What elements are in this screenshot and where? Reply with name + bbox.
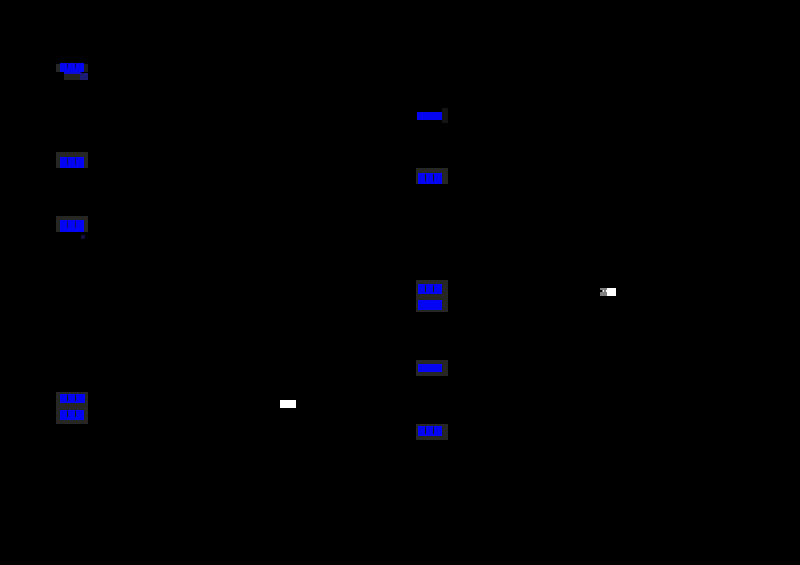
link block C gray surround — [56, 216, 88, 232]
link block A faint superscript glyph — [84, 64, 87, 72]
link block H blue text (solid) — [418, 364, 442, 373]
link block G blue row 1 — [418, 284, 442, 295]
small logo icon: gray half — [600, 288, 607, 296]
link block A blue descender row — [64, 72, 81, 74]
small logo icon: white half — [607, 288, 615, 296]
icon white notch between halves — [606, 290, 608, 292]
white rectangle figure — [280, 400, 296, 408]
link block F blue text — [418, 173, 443, 183]
link block B gray surround — [56, 152, 88, 168]
link block F gray surround — [416, 168, 448, 184]
link block A navy box row2 — [80, 73, 88, 80]
link block H gray surround — [416, 360, 448, 376]
icon white tick inside gray — [603, 290, 604, 293]
link block A (top-left) gray surround row1 — [56, 64, 88, 72]
link block C blue text — [60, 220, 84, 232]
icon black notch left — [600, 290, 602, 292]
link block G gray surround (two rows) — [416, 280, 448, 313]
link block I gray surround — [416, 424, 448, 440]
link block A blue text main — [60, 63, 84, 72]
link block B blue text — [60, 157, 84, 168]
link block E faint gray tail — [442, 108, 448, 123]
link block I blue text — [418, 426, 442, 437]
link block D blue row 2 — [60, 410, 84, 420]
link block E (mid column, solid) blue — [417, 112, 442, 121]
link block D blue row 1 — [60, 394, 85, 404]
link block D gray surround (two rows) — [56, 392, 88, 424]
link block A gray row2 — [64, 74, 80, 80]
link block G blue row 2 — [418, 300, 442, 310]
link block C faint navy speck below — [81, 235, 85, 240]
